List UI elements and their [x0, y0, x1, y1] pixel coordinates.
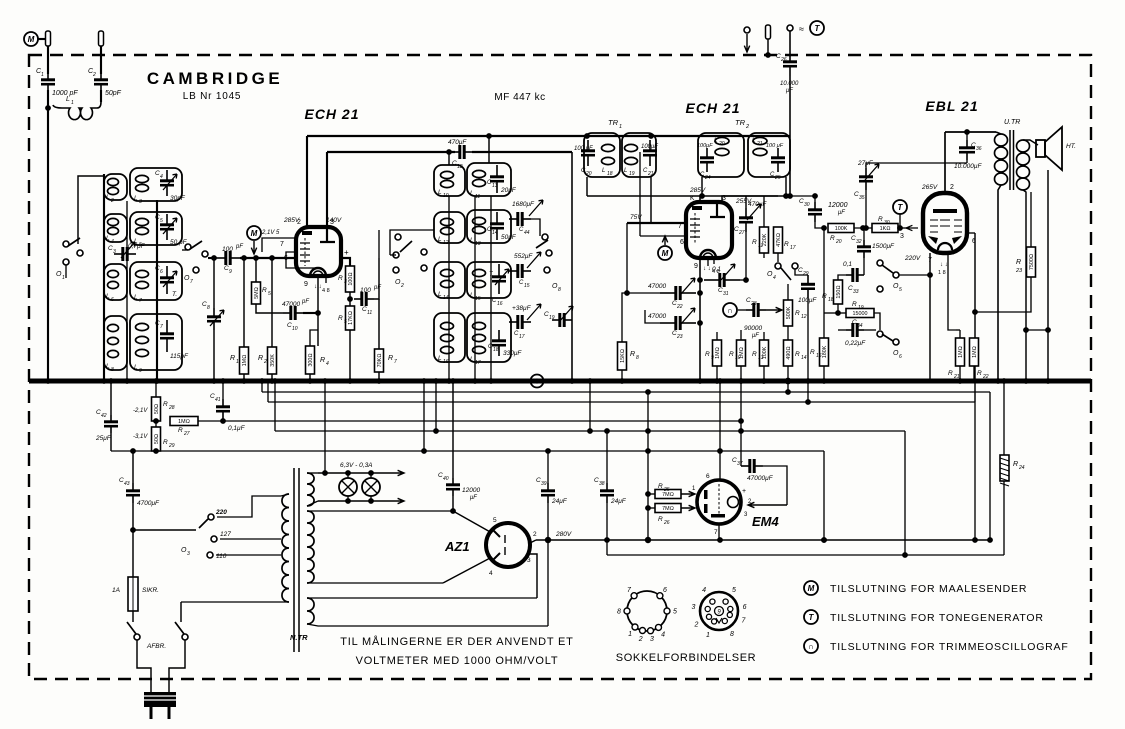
wire AVC line: [587, 195, 790, 197]
capacitor C3: [114, 247, 136, 261]
svg-text:3: 3: [691, 604, 695, 611]
capacitor C15: [509, 264, 531, 278]
svg-text:127: 127: [220, 531, 231, 538]
svg-text:μF: μF: [837, 210, 845, 216]
svg-text:4: 4: [160, 174, 163, 180]
legend symbol M: [804, 581, 818, 595]
svg-text:2: 2: [533, 531, 537, 538]
svg-text:+38μF: +38μF: [512, 305, 532, 312]
wire tube1 pin-plus to R3: [341, 258, 350, 266]
resistor R24: [1000, 455, 1009, 481]
svg-text:SOKKELFORBINDELSER: SOKKELFORBINDELSER: [616, 652, 756, 664]
resistor R19: [846, 309, 874, 318]
switch AFBR contact b: [182, 634, 188, 640]
wire to O2: [390, 254, 396, 256]
wire dist 4 down: [823, 451, 825, 540]
svg-text:R: R: [163, 401, 168, 408]
transformer N.TR core: [294, 468, 299, 652]
terminal oscillograph: [723, 303, 737, 317]
resistor R5: [252, 282, 261, 304]
switch O8 arm: [536, 240, 548, 248]
svg-text:9: 9: [694, 263, 698, 270]
svg-text:6: 6: [663, 587, 667, 594]
resistor R23: [1027, 247, 1036, 277]
svg-text:6: 6: [706, 473, 710, 480]
capacitor C27: [739, 208, 753, 232]
svg-text:30pF: 30pF: [170, 195, 186, 202]
svg-text:R: R: [795, 310, 800, 317]
wire U.TR primary bottom down: [998, 185, 1001, 381]
svg-text:300Ω: 300Ω: [308, 353, 314, 366]
svg-text:1: 1: [706, 632, 710, 639]
svg-text:14: 14: [801, 355, 807, 361]
svg-text:47000μF: 47000μF: [747, 475, 774, 482]
svg-text:2: 2: [638, 636, 643, 643]
switch O1 contact c: [77, 250, 83, 256]
svg-text:0,1μF: 0,1μF: [228, 425, 246, 432]
svg-text:8: 8: [617, 609, 621, 616]
svg-text:100μF: 100μF: [697, 143, 713, 149]
coil can L8: [104, 316, 127, 370]
svg-text:T.: T.: [172, 291, 177, 298]
inductor L6: [108, 270, 119, 288]
wire tube2 pin stub b: [713, 258, 715, 264]
wire pin6 column: [974, 233, 976, 402]
svg-text:T.: T.: [489, 272, 494, 278]
wire to C8: [213, 258, 215, 308]
svg-text:TILSLUTNING FOR TRIMMEOSCILLOG: TILSLUTNING FOR TRIMMEOSCILLOGRAF: [830, 641, 1069, 653]
svg-text:R: R: [729, 351, 734, 358]
capacitor C18: [492, 330, 506, 356]
inductor L1: [53, 102, 101, 120]
svg-text:26: 26: [780, 57, 787, 63]
wire O5 to cathode line: [899, 274, 930, 276]
inductor L18: [602, 144, 615, 164]
switch O6 contact b: [893, 339, 899, 345]
switch O2 contact b: [393, 252, 399, 258]
svg-text:24μF: 24μF: [551, 498, 568, 505]
wire switch to C9: [208, 257, 216, 259]
coil can L5 C5: [130, 212, 182, 245]
terminal M mixer grid: [247, 226, 261, 240]
inductor L10: [441, 171, 454, 187]
svg-text:6: 6: [899, 354, 902, 360]
coil can L4: [104, 214, 127, 242]
wire antenna node to bus: [47, 108, 49, 381]
wire anode supply top: [307, 135, 700, 137]
svg-text:L: L: [470, 237, 474, 244]
wire C37 to EM4 anode: [763, 466, 787, 505]
svg-text:R: R: [752, 239, 757, 246]
resistor R27: [170, 417, 198, 426]
svg-text:47000: 47000: [648, 313, 666, 320]
wire C29 to dist2: [807, 381, 809, 402]
wire speaker net rung: [1026, 329, 1048, 331]
wire bus to lamps: [324, 381, 326, 473]
resistor R9: [713, 340, 722, 366]
switch O6 contact a: [877, 331, 883, 337]
coil can L12: [434, 212, 465, 243]
svg-text:1MΩ: 1MΩ: [715, 347, 721, 359]
wire HT bottom to AZ1: [307, 582, 443, 584]
svg-text:1500μF: 1500μF: [872, 243, 895, 250]
svg-text:100Ω: 100Ω: [348, 272, 354, 285]
svg-text:6: 6: [160, 269, 163, 275]
svg-text:3: 3: [650, 636, 654, 643]
wire tuner column 1: [103, 174, 105, 381]
inductor L14: [441, 269, 454, 287]
coil can L2: [104, 174, 127, 200]
coil can TR2 right: [748, 133, 790, 177]
svg-text:41: 41: [215, 397, 221, 403]
svg-text:L: L: [106, 293, 110, 300]
resistor R18: [834, 280, 843, 304]
switch O5 contact c: [877, 286, 883, 292]
wire tap 127: [220, 538, 281, 540]
inductor U.TR secondary: [1017, 140, 1030, 190]
wire O2 up: [390, 230, 434, 255]
coil can TR1 right: [622, 133, 656, 177]
svg-text:AZ1: AZ1: [444, 539, 470, 554]
svg-text:14: 14: [443, 295, 449, 301]
svg-text:22: 22: [676, 304, 683, 310]
fuse 1A SIKR: [128, 577, 138, 611]
wire TR2 right down: [785, 177, 787, 196]
svg-text:18: 18: [607, 171, 613, 177]
svg-text:35: 35: [859, 195, 865, 201]
capacitor C21: [643, 140, 657, 166]
wire HT to AZ1 pin4: [443, 557, 492, 583]
wire bus to R24: [1003, 381, 1005, 455]
svg-text:R: R: [1016, 259, 1021, 266]
svg-text:μF: μF: [785, 88, 793, 94]
inductor L8: [108, 324, 119, 357]
capacitor C6 trimmer: [160, 266, 174, 294]
wire L11 top: [488, 136, 490, 163]
svg-text:pF: pF: [235, 244, 243, 250]
svg-text:N.TR: N.TR: [290, 633, 308, 642]
switch O7 contact a: [185, 244, 191, 250]
svg-text:490Ω: 490Ω: [786, 346, 792, 359]
wire HT top to AZ1: [307, 510, 452, 512]
switch O2 contact e: [421, 265, 427, 271]
svg-text:μF: μF: [469, 495, 477, 501]
wire C10 to cathode: [303, 312, 318, 314]
svg-text:47000: 47000: [282, 301, 300, 308]
svg-text:1: 1: [71, 100, 74, 106]
svg-text:15: 15: [524, 283, 530, 289]
capacitor C16 trimmer: [492, 264, 506, 294]
svg-text:12: 12: [443, 240, 449, 246]
capacitor C7: [160, 320, 174, 352]
wire plate to U.TR: [945, 131, 996, 133]
wire to R11: [763, 196, 765, 227]
svg-text:R: R: [784, 241, 789, 248]
svg-text:29: 29: [168, 443, 175, 449]
legend symbol T: [804, 610, 818, 624]
switch O5 contact a: [877, 260, 883, 266]
switch O1 arm: [68, 238, 80, 246]
svg-text:18: 18: [493, 347, 499, 353]
inductor L17: [473, 322, 486, 353]
svg-text:11: 11: [367, 310, 372, 316]
svg-text:20: 20: [718, 141, 725, 147]
coil can L3 C4: [130, 168, 182, 201]
svg-text:L: L: [438, 355, 442, 362]
svg-text:100 μF: 100 μF: [574, 146, 593, 152]
wire C12 right: [472, 151, 572, 153]
svg-text:4: 4: [489, 570, 493, 577]
svg-text:8: 8: [730, 631, 734, 638]
wire to EM4 top: [719, 451, 721, 480]
svg-text:VOLTMETER MED 1000 OHM/VOLT: VOLTMETER MED 1000 OHM/VOLT: [356, 655, 559, 667]
svg-text:180K: 180K: [822, 345, 828, 358]
capacitor C13: [490, 165, 504, 193]
terminal T grid injection: [893, 200, 907, 214]
svg-text:44: 44: [524, 230, 530, 236]
svg-text:27: 27: [738, 230, 745, 236]
wire EM4 bias column: [647, 392, 649, 540]
svg-text:L: L: [470, 292, 474, 299]
svg-text:6,3V - 0,3A: 6,3V - 0,3A: [340, 462, 373, 469]
svg-text:7: 7: [394, 359, 397, 365]
switch AFBR contact a: [134, 634, 140, 640]
svg-text:6: 6: [743, 604, 747, 611]
svg-text:12000: 12000: [828, 202, 848, 209]
svg-text:17KΩ: 17KΩ: [348, 311, 354, 325]
capacitor C32: [857, 240, 871, 258]
wire bus to R28: [155, 381, 157, 397]
terminal T tonegenerator top: [810, 21, 824, 35]
capacitor C17: [509, 315, 531, 329]
svg-text:150Ω: 150Ω: [836, 285, 842, 298]
svg-text:16: 16: [816, 353, 822, 359]
svg-text:μF: μF: [751, 333, 759, 339]
capacitor C44: [509, 212, 531, 226]
terminal M IF grid: [658, 246, 672, 260]
resistor R14: [784, 340, 793, 366]
capacitor C35: [859, 168, 873, 190]
svg-text:L: L: [134, 364, 138, 371]
svg-text:EM4: EM4: [752, 514, 780, 529]
svg-text:LB Nr 1045: LB Nr 1045: [183, 91, 242, 102]
svg-text:1: 1: [628, 631, 632, 638]
plug P3: [766, 25, 771, 39]
svg-text:L: L: [134, 195, 138, 202]
coil can L10: [434, 165, 465, 196]
wire R23 to cathode net: [975, 277, 1031, 312]
wire tap 220: [217, 496, 281, 517]
svg-text:43: 43: [124, 481, 130, 487]
capacitor C1: [41, 74, 55, 90]
svg-text:11: 11: [475, 194, 480, 200]
coil can L9 C7: [130, 314, 182, 370]
svg-text:3: 3: [139, 199, 142, 205]
svg-text:SIKR.: SIKR.: [142, 587, 159, 594]
capacitor C23: [660, 316, 696, 330]
wire lamp top with arrow: [318, 470, 404, 475]
wire TR2 left down: [701, 177, 703, 196]
svg-text:R: R: [388, 355, 393, 362]
wire tube2 grid in: [640, 235, 686, 237]
svg-text:7500Ω: 7500Ω: [1029, 254, 1035, 270]
svg-text:R: R: [658, 516, 663, 523]
capacitor C36: [959, 140, 975, 160]
svg-text:5: 5: [899, 287, 902, 293]
svg-text:7MΩ: 7MΩ: [662, 506, 674, 512]
resistor R26: [655, 504, 681, 513]
inductor L7: [136, 270, 149, 288]
capacitor C40: [446, 478, 460, 496]
svg-text:552μF: 552μF: [514, 253, 533, 260]
svg-text:+: +: [742, 488, 746, 495]
wire arm to R12: [787, 284, 789, 300]
wire switch to plug a: [137, 640, 151, 692]
svg-text:1MΩ: 1MΩ: [972, 346, 978, 358]
tube V5 EM4: [697, 480, 741, 524]
wire osc column down: [571, 152, 573, 381]
svg-text:R: R: [1013, 461, 1018, 468]
resistor R10: [737, 340, 746, 366]
wire bus to C37 column: [740, 381, 742, 421]
capacitor C14: [490, 212, 504, 240]
svg-text:≈: ≈: [799, 24, 804, 34]
wire fuse to switch: [132, 611, 134, 622]
wire to R5: [255, 258, 257, 282]
svg-text:7: 7: [190, 279, 193, 285]
svg-text:4: 4: [702, 587, 706, 594]
svg-text:1: 1: [236, 359, 239, 365]
wire rect heater bottom: [307, 624, 548, 626]
inductor L4: [108, 218, 119, 234]
wire cathode down: [317, 276, 319, 346]
wire C2 to coil: [100, 90, 102, 102]
inductor L12: [441, 218, 454, 234]
tube U3 EBL21: [923, 193, 967, 253]
svg-text:10: 10: [443, 193, 449, 199]
switch O8 contact c: [544, 267, 550, 273]
wire dist 1: [262, 391, 990, 393]
wire to R8: [622, 293, 627, 342]
capacitor C29: [801, 275, 815, 298]
svg-text:30: 30: [804, 202, 810, 208]
resistor R22: [970, 338, 979, 366]
svg-text:37: 37: [737, 461, 743, 467]
svg-text:90000: 90000: [744, 325, 762, 332]
svg-text:M: M: [28, 35, 35, 44]
svg-text:50Ω: 50Ω: [154, 434, 160, 444]
wire C9 to tube1 grid: [240, 257, 296, 259]
svg-text:9: 9: [229, 269, 232, 275]
svg-text:47000: 47000: [648, 283, 666, 290]
svg-text:ECH 21: ECH 21: [685, 100, 740, 116]
wire top supply to TR2: [700, 135, 790, 137]
svg-text:M: M: [251, 229, 258, 238]
inductor L11: [473, 170, 486, 186]
wire tube3 pin down: [948, 253, 956, 330]
svg-text:M: M: [808, 584, 815, 593]
capacitor C9: [216, 251, 240, 265]
svg-text:50μF: 50μF: [501, 234, 517, 241]
wire bus tap b: [267, 381, 269, 402]
svg-text:70KΩ: 70KΩ: [377, 354, 383, 368]
wire primary bottom to AFBR: [181, 601, 289, 603]
switch O2 arm: [400, 241, 412, 252]
svg-text:39: 39: [541, 481, 547, 487]
svg-text:TIL MÅLINGERNE ER DER ANVENDT: TIL MÅLINGERNE ER DER ANVENDT ET: [340, 635, 573, 648]
lamp LA2: [362, 478, 380, 496]
inductor L15: [473, 269, 486, 287]
svg-text:L: L: [470, 356, 474, 363]
resistor R16: [820, 338, 829, 366]
resistor R5b: [346, 306, 355, 330]
switch O4 contact a: [775, 263, 781, 269]
inductor L19: [625, 144, 638, 164]
svg-text:4: 4: [661, 631, 665, 638]
resistor R4: [306, 346, 315, 374]
capacitor C4: [160, 170, 174, 196]
svg-text:L: L: [134, 294, 138, 301]
svg-text:27: 27: [183, 431, 190, 437]
wire mid column a: [448, 196, 450, 381]
wire bus tap e: [423, 381, 425, 451]
svg-text:-3,1V: -3,1V: [133, 434, 148, 440]
coil can L13 C14: [467, 210, 511, 243]
svg-text:15: 15: [475, 296, 481, 302]
svg-text:R: R: [338, 315, 343, 322]
svg-text:6: 6: [111, 297, 114, 303]
svg-text:100 μF: 100 μF: [766, 143, 784, 149]
resistor R3: [346, 266, 355, 292]
coil can L15 C16: [467, 262, 511, 298]
wire to C37: [740, 421, 742, 466]
resistor R2: [268, 347, 277, 374]
svg-text:R: R: [852, 301, 857, 308]
svg-text:500K: 500K: [786, 306, 792, 319]
svg-text:23: 23: [676, 334, 683, 340]
resistor R7: [375, 349, 384, 372]
svg-text:1: 1: [62, 275, 65, 281]
inductor N.TR primary: [282, 494, 289, 602]
wire EM4 bottom: [718, 524, 720, 540]
wire bus to C40: [452, 381, 454, 478]
capacitor C43: [126, 483, 140, 503]
wire M to plug: [38, 38, 45, 40]
svg-text:21: 21: [647, 171, 654, 177]
wire C43 to fuse: [132, 503, 134, 577]
inductor N.TR HT winding: [307, 511, 314, 583]
svg-text:7: 7: [139, 298, 142, 304]
wire tube2 anode up: [699, 196, 701, 202]
coil can L6: [104, 264, 127, 300]
svg-text:L: L: [66, 96, 70, 103]
wire C26 down to diode line: [789, 76, 791, 196]
svg-text:110: 110: [216, 553, 227, 560]
svg-text:280V: 280V: [555, 531, 572, 538]
svg-text:17: 17: [475, 360, 481, 366]
svg-text:5: 5: [673, 609, 677, 616]
svg-text:1MΩ: 1MΩ: [958, 346, 964, 358]
svg-text:R: R: [230, 355, 235, 362]
svg-text:31: 31: [723, 291, 729, 297]
svg-text:R: R: [795, 351, 800, 358]
wire tap 110: [216, 554, 281, 556]
capacitor C8 trimmer: [207, 308, 221, 330]
svg-text:33: 33: [853, 289, 859, 295]
svg-text:2: 2: [694, 622, 699, 629]
wire dist 3: [275, 430, 905, 432]
coil can L16: [434, 313, 465, 362]
